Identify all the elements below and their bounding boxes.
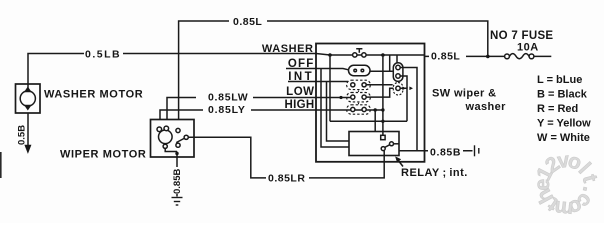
legend wire colour codes [537, 74, 591, 144]
label 0.85B (rotated, wiper) [171, 167, 184, 194]
fuse F1 [505, 54, 552, 59]
svg-text:0.85LW: 0.85LW [208, 92, 248, 104]
node HIGH junctions [374, 108, 385, 123]
svg-text:0.85B: 0.85B [172, 169, 183, 194]
svg-text:0.85LR: 0.85LR [268, 173, 305, 185]
svg-text:0.5B: 0.5B [17, 125, 28, 145]
wire WASHER 0.5LB (washer motor to switch box) [28, 54, 425, 85]
svg-text:WASHER: WASHER [262, 43, 314, 55]
svg-text:0.85L: 0.85L [431, 51, 460, 63]
svg-text:Y = Yellow: Y = Yellow [537, 118, 591, 130]
wire wiper motor ground drop [176, 157, 178, 197]
node LOW junction [339, 96, 342, 99]
switch assembly box SW [316, 44, 425, 162]
svg-text:L = bLue: L = bLue [537, 74, 582, 86]
wire cluster row2 to connector riser [366, 88, 393, 97]
node bus junction left [328, 53, 332, 57]
wire HIGH drop to relay [374, 110, 376, 132]
svg-text:WIPER MOTOR: WIPER MOTOR [60, 149, 146, 161]
svg-text:LOW: LOW [286, 86, 314, 98]
wire OFF wrap to relay [321, 69, 349, 148]
wire 0.85B to ground (right) [399, 150, 473, 152]
wire left bus wrap to relay [329, 55, 331, 121]
wire connector pin2 drop [400, 76, 407, 88]
wire OFF [286, 69, 349, 70]
wire bus drop to relay coil [382, 55, 384, 135]
svg-text:B = Black: B = Black [537, 89, 588, 101]
wiper switch contact cluster [347, 80, 371, 114]
washer push switch SW1 [353, 49, 367, 57]
wire connector pin1 right drop [400, 68, 417, 151]
svg-text:10A: 10A [517, 42, 539, 54]
svg-text:R = Red: R = Red [537, 103, 578, 115]
wire INT [288, 81, 348, 83]
washer motor M1 [16, 84, 41, 113]
relay box K1 [349, 132, 399, 156]
connector stadium (solid) [393, 63, 403, 82]
svg-text:HIGH: HIGH [285, 99, 315, 111]
svg-text:WASHER MOTOR: WASHER MOTOR [44, 89, 143, 101]
wire 0.85L to fuse [425, 55, 505, 57]
watermark the12volt.com [531, 149, 602, 221]
relay switch contacts [381, 142, 399, 151]
svg-text:0.85LY: 0.85LY [208, 104, 246, 116]
svg-text:SW wiper &: SW wiper & [432, 88, 497, 100]
wire connector pin3 to relay [400, 88, 407, 121]
wire 0.85LY (HIGH line to wiper motor) [160, 110, 384, 120]
svg-text:RELAY ; int.: RELAY ; int. [401, 167, 468, 179]
node bus junction right [381, 53, 385, 57]
svg-text:m: m [553, 196, 574, 221]
wire 0.85L feed (top line, left drop to wiper motor, right drop to fuse) [179, 21, 488, 120]
label SW wiper & washer [432, 88, 506, 114]
wire cluster row1 to connector [366, 84, 393, 86]
washer contact oval [349, 65, 371, 75]
svg-text:0.5LB: 0.5LB [85, 48, 121, 60]
wire 0.85LW (LOW line to wiper motor) [167, 98, 353, 120]
wire bus riser to washer oval line [389, 55, 391, 71]
wire bus to connector [396, 55, 398, 63]
wire lower cross bus [330, 120, 407, 122]
wire INT wrap to relay [327, 82, 350, 142]
wire 0.85LR (wiper motor to relay) [188, 137, 384, 178]
relay coil pad [381, 135, 385, 139]
RELAY leader arrow [396, 157, 404, 167]
wiper motor M2 [151, 120, 195, 158]
label 0.5B (rotated) [15, 124, 28, 146]
wire oval to relay [370, 70, 393, 72]
node fuse junction [486, 55, 490, 59]
svg-text:0.85B: 0.85B [430, 146, 461, 158]
wire washer motor ground drop [27, 113, 29, 146]
svg-text:W = White: W = White [537, 132, 590, 144]
connector pin arrows [403, 87, 413, 90]
svg-text:NO 7 FUSE: NO 7 FUSE [490, 30, 553, 42]
svg-text:washer: washer [465, 101, 507, 113]
connector stadium (dashed) [393, 83, 403, 96]
ground symbol (right) [475, 145, 479, 156]
ground symbol (wiper motor) [172, 198, 183, 206]
svg-text:0.85L: 0.85L [233, 16, 262, 28]
ground arrow (washer motor) [25, 145, 31, 153]
scan edge artifact [0, 152, 2, 178]
